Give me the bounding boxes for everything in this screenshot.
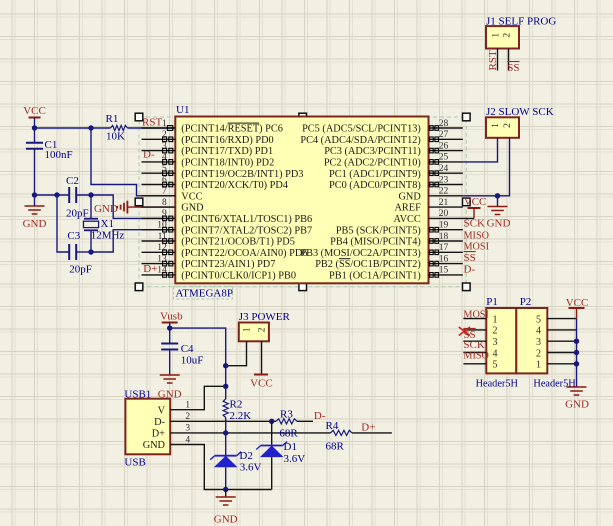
- svg-text:Header5H: Header5H: [476, 378, 519, 389]
- svg-text:22: 22: [439, 187, 449, 197]
- svg-text:1: 1: [491, 33, 501, 38]
- J3 pin 2 wire: [261, 341, 263, 374]
- svg-text:(PCINT20/XCK/T0) PD4: (PCINT20/XCK/T0) PD4: [181, 180, 288, 191]
- U1 pin 27 edge mark: [430, 137, 439, 142]
- U1 pin 17 edge mark: [430, 250, 439, 255]
- U1 pin 10 edge mark: [163, 227, 173, 232]
- U1 pin 5 wire: [142, 172, 176, 174]
- wire D+ junction to D2: [225, 433, 227, 456]
- svg-text:27: 27: [439, 130, 449, 140]
- svg-text:USB1: USB1: [124, 388, 151, 400]
- no-ERC marker at P1 pin 2: [459, 327, 470, 336]
- svg-text:RST: RST: [142, 117, 162, 129]
- U1 pin 21 wire: [429, 206, 463, 208]
- connector P1 body: [486, 308, 516, 373]
- U1 pin 26 edge mark: [430, 148, 439, 153]
- U1 pin 23 wire: [429, 184, 463, 186]
- svg-text:R3: R3: [280, 409, 293, 421]
- svg-text:8: 8: [162, 198, 167, 208]
- selection handle: [299, 283, 307, 291]
- svg-text:(PCINT19/OC2B/INT1) PD3: (PCINT19/OC2B/INT1) PD3: [181, 169, 303, 180]
- P2 pin 2 wire: [547, 352, 576, 354]
- svg-text:10uF: 10uF: [181, 355, 204, 367]
- svg-text:(PCINT14/RESET) PC6: (PCINT14/RESET) PC6: [181, 124, 283, 135]
- capacitor C3: [67, 230, 80, 260]
- svg-text:3: 3: [536, 337, 541, 348]
- svg-text:SCK: SCK: [464, 218, 485, 230]
- wire J2 pin 1 to U1 pin 25: [463, 138, 498, 162]
- wire D2 to GND rail: [225, 467, 227, 489]
- U1 pin 14 edge mark: [163, 273, 173, 278]
- node R2/D2/D+ junction: [223, 430, 228, 435]
- U1 pin 11 wire: [142, 240, 176, 242]
- U1 pin 7 wire: [142, 195, 176, 197]
- connector J3 POWER body: [239, 323, 269, 342]
- wire J2 pin 2 to GND rail: [463, 138, 510, 196]
- U1 pin 11 edge mark: [163, 239, 173, 244]
- svg-text:C4: C4: [181, 343, 194, 355]
- wire C3 to crystal bottom: [76, 251, 91, 253]
- node D-/D1 junction: [269, 419, 274, 424]
- svg-text:(PCINT18/INT0) PD2: (PCINT18/INT0) PD2: [181, 158, 274, 169]
- U1 pin 4 edge mark: [163, 160, 173, 165]
- svg-text:RST: RST: [487, 50, 499, 70]
- USB1 pin 1 wire to Vusb: [170, 386, 226, 409]
- connector USB1 body: [125, 399, 170, 455]
- svg-text:D-: D-: [464, 263, 476, 275]
- U1 pin 5 edge mark: [163, 171, 173, 176]
- P2 pin 1 wire: [547, 363, 576, 365]
- wire J3 pin 1 to Vusb rail: [226, 341, 247, 365]
- svg-text:GND: GND: [94, 203, 118, 215]
- connector J2 SLOW SCK body: [486, 117, 519, 138]
- node GND rail junction: [223, 487, 228, 492]
- node crystal top junction: [88, 192, 93, 197]
- svg-text:VCC: VCC: [181, 191, 202, 202]
- svg-text:C2: C2: [66, 175, 79, 187]
- svg-text:PC5 (ADC5/SCL/PCINT13): PC5 (ADC5/SCL/PCINT13): [302, 124, 421, 135]
- U1 pin 25 wire: [429, 161, 463, 163]
- svg-text:MOSI: MOSI: [463, 310, 489, 321]
- svg-text:1: 1: [243, 327, 253, 332]
- U1 pin 8 wire: [142, 206, 176, 208]
- svg-text:SS: SS: [464, 252, 476, 264]
- svg-text:R2: R2: [230, 399, 243, 411]
- svg-text:VCC: VCC: [23, 105, 46, 117]
- svg-text:D-: D-: [154, 417, 165, 428]
- U1 pin 28 wire: [429, 127, 463, 129]
- svg-text:GND: GND: [23, 218, 47, 230]
- svg-text:(PCINT6/XTAL1/TOSC1) PB6: (PCINT6/XTAL1/TOSC1) PB6: [181, 214, 312, 225]
- svg-text:24: 24: [439, 164, 449, 174]
- node VCC rail branch junction: [88, 125, 93, 130]
- svg-text:PC1 (ADC1/PCINT9): PC1 (ADC1/PCINT9): [329, 169, 421, 180]
- svg-text:21: 21: [439, 198, 449, 208]
- U1 pin 24 edge mark: [430, 171, 439, 176]
- svg-text:1: 1: [491, 123, 501, 128]
- P1 pin 4 wire: [463, 352, 486, 354]
- svg-text:MOSI: MOSI: [464, 242, 490, 253]
- svg-text:2: 2: [502, 33, 512, 38]
- svg-text:(PCINT16/RXD) PD0: (PCINT16/RXD) PD0: [181, 135, 273, 146]
- wire VCC stem down P2 to GND: [576, 319, 578, 387]
- wire R1 to U1 pin 1: [128, 127, 176, 129]
- power port VCC at P2: [566, 297, 589, 319]
- svg-text:26: 26: [439, 141, 449, 151]
- U1 pin 3 edge mark: [163, 148, 173, 153]
- U1 pin 2 wire: [142, 138, 176, 140]
- svg-text:2: 2: [258, 327, 268, 332]
- P1 pin 3 wire: [463, 340, 486, 342]
- svg-text:25: 25: [439, 153, 449, 163]
- svg-text:19: 19: [439, 221, 449, 231]
- svg-text:PB4 (MISO/PCINT4): PB4 (MISO/PCINT4): [330, 237, 421, 248]
- node crystal bottom junction: [88, 249, 93, 254]
- svg-text:2.2K: 2.2K: [230, 410, 252, 422]
- ground symbol GND (top left): [23, 195, 47, 230]
- svg-text:(PCINT23/AIN1) PD7: (PCINT23/AIN1) PD7: [181, 259, 275, 270]
- U1 pin 27 wire: [429, 138, 463, 140]
- svg-text:Vusb: Vusb: [160, 311, 183, 323]
- selection handle: [463, 113, 471, 121]
- ground symbol GND (J2): [487, 196, 511, 230]
- P1 pin 5 wire: [463, 363, 486, 365]
- svg-text:GND: GND: [565, 399, 589, 411]
- U1 pin 19 edge mark: [430, 227, 439, 232]
- svg-text:5: 5: [536, 314, 541, 325]
- U1 pin 18 edge mark: [430, 239, 439, 244]
- U1 pin 25 edge mark: [430, 160, 439, 165]
- U1 pin 28 edge mark: [430, 126, 439, 131]
- U1 pin 2 edge mark: [163, 137, 173, 142]
- U1 pin 10 wire: [142, 229, 176, 231]
- ground power port at U1 pin 8: [94, 201, 127, 215]
- svg-text:AREF: AREF: [394, 203, 421, 214]
- ic U1 ATMEGA8P body: [175, 117, 428, 284]
- svg-text:PC0 (ADC0/PCINT8): PC0 (ADC0/PCINT8): [329, 180, 421, 191]
- capacitor C4: [161, 343, 194, 375]
- wire GND branch down to C3: [57, 195, 69, 252]
- svg-text:7: 7: [162, 187, 167, 197]
- svg-text:J3 POWER: J3 POWER: [239, 311, 291, 323]
- svg-text:MISO: MISO: [464, 230, 489, 241]
- connector J1 SELF PROG body: [486, 26, 519, 48]
- svg-text:(PCINT0/CLK0/ICP1) PB0: (PCINT0/CLK0/ICP1) PB0: [181, 271, 296, 282]
- svg-text:ATMEGA8P: ATMEGA8P: [176, 288, 233, 300]
- U1 pin 15 edge mark: [430, 273, 439, 278]
- svg-text:VCC: VCC: [464, 196, 487, 208]
- wire Vusb rail right: [170, 328, 226, 399]
- resistor R3: [276, 409, 297, 424]
- svg-text:12MHz: 12MHz: [91, 230, 125, 242]
- wire GND port to U1 pin 8: [127, 206, 175, 208]
- U1 pin 19 wire: [429, 229, 463, 231]
- P1 pin 2 wire: [463, 329, 486, 331]
- U1 pin 13 wire: [142, 263, 176, 265]
- svg-text:(PCINT17/TXD) PD1: (PCINT17/TXD) PD1: [181, 146, 273, 157]
- svg-text:D1: D1: [284, 441, 297, 453]
- wire R2 bottom to D+ line: [225, 418, 227, 433]
- U1 pin 24 wire: [429, 172, 463, 174]
- svg-text:18: 18: [439, 232, 449, 242]
- selection handle: [463, 198, 471, 206]
- resistor R2: [223, 399, 242, 418]
- power port VCC at U1 pin 20: [464, 196, 487, 218]
- power port Vusb: [160, 311, 183, 323]
- svg-text:P2: P2: [520, 296, 532, 308]
- svg-text:GND: GND: [143, 440, 166, 451]
- svg-text:15: 15: [439, 266, 449, 276]
- svg-text:PB3 (MOSI/OC2A/PCINT3): PB3 (MOSI/OC2A/PCINT3): [300, 248, 420, 259]
- wire crystal bottom to XTAL2 elbow: [91, 230, 175, 252]
- node P2 pin 1 junction: [574, 361, 579, 366]
- U1 pin 18 wire: [429, 240, 463, 242]
- svg-text:AVCC: AVCC: [394, 214, 421, 225]
- svg-text:(PCINT7/XTAL2/TOSC2) PB7: (PCINT7/XTAL2/TOSC2) PB7: [181, 225, 312, 236]
- resistor R1: [106, 113, 128, 131]
- svg-text:4: 4: [536, 326, 541, 337]
- svg-text:68R: 68R: [279, 428, 298, 440]
- svg-text:20: 20: [439, 209, 449, 219]
- svg-text:5: 5: [493, 360, 498, 371]
- U1 pin 16 edge mark: [430, 261, 439, 266]
- U1 pin 14 wire: [142, 274, 176, 276]
- node P2 pin 2 junction: [574, 350, 579, 355]
- ground symbol GND (P2): [565, 387, 589, 411]
- svg-text:PB1 (OC1A/PCINT1): PB1 (OC1A/PCINT1): [329, 271, 421, 282]
- capacitor C1: [26, 128, 57, 195]
- USB1 pin 2 wire D- line: [170, 420, 276, 422]
- U1 pin 1 edge mark: [167, 126, 172, 131]
- svg-text:U1: U1: [176, 104, 189, 116]
- node Vusb/V junction: [223, 384, 228, 389]
- resistor R4: [326, 420, 353, 436]
- svg-text:2: 2: [536, 348, 541, 359]
- svg-text:D-: D-: [314, 410, 326, 422]
- wire Vusb stem: [169, 323, 171, 344]
- power port VCC (top left): [23, 105, 46, 118]
- U1 pin 22 wire: [429, 195, 463, 197]
- node VCC/C1 junction: [32, 125, 37, 130]
- svg-text:PB5 (SCK/PCINT5): PB5 (SCK/PCINT5): [336, 225, 421, 236]
- svg-text:R4: R4: [326, 420, 339, 432]
- crystal X1: [84, 195, 114, 252]
- svg-text:GND: GND: [181, 203, 204, 214]
- J1 pin 1 wire: [497, 49, 499, 71]
- svg-text:D+: D+: [152, 429, 165, 440]
- svg-text:PB2 (SS/OC1B/PCINT2): PB2 (SS/OC1B/PCINT2): [315, 259, 421, 270]
- wire VCC stem to rail: [34, 118, 36, 129]
- svg-text:SCK: SCK: [463, 339, 484, 351]
- node J3 pin1 junction: [223, 363, 228, 368]
- svg-text:28: 28: [439, 119, 449, 129]
- svg-text:17: 17: [439, 243, 449, 253]
- svg-text:20pF: 20pF: [66, 207, 89, 219]
- svg-text:68R: 68R: [326, 441, 345, 453]
- svg-text:3: 3: [493, 337, 498, 348]
- node Vusb junction: [167, 325, 172, 330]
- wire D1 to GND rail: [271, 457, 273, 489]
- svg-text:C3: C3: [67, 230, 80, 242]
- svg-text:1: 1: [536, 360, 541, 371]
- net label SS at J1 pin 2: [507, 62, 519, 75]
- U1 pin 17 wire: [429, 251, 463, 253]
- U1 pin 9 edge mark: [163, 216, 173, 221]
- node J2 GND junction: [495, 193, 500, 198]
- U1 pin 16 wire: [429, 263, 463, 265]
- svg-text:(PCINT22/OCOA/AIN0) PD6: (PCINT22/OCOA/AIN0) PD6: [181, 248, 307, 259]
- svg-text:SS: SS: [507, 62, 519, 74]
- svg-text:VCC: VCC: [250, 377, 273, 389]
- svg-text:PC2 (ADC2/PCINT10): PC2 (ADC2/PCINT10): [324, 158, 421, 169]
- P2 pin 5 wire: [547, 318, 576, 320]
- node GND rail junction at x57: [54, 192, 59, 197]
- svg-text:J1 SELF PROG: J1 SELF PROG: [486, 16, 556, 28]
- wire VCC rail to R1: [35, 127, 111, 129]
- USB1 pin 4 wire to GND rail: [170, 445, 272, 490]
- U1 pin 23 edge mark: [430, 182, 439, 187]
- U1 pin 26 wire: [429, 150, 463, 152]
- connector P2 body: [516, 308, 547, 373]
- svg-text:D2: D2: [239, 450, 252, 462]
- svg-text:P1: P1: [486, 296, 498, 308]
- svg-text:100nF: 100nF: [45, 149, 73, 161]
- svg-text:4: 4: [493, 348, 498, 359]
- svg-text:D+: D+: [361, 422, 375, 434]
- P1 pin 1 wire: [463, 318, 486, 320]
- U1 pin 3 wire: [142, 150, 176, 152]
- U1 pin 4 wire: [142, 161, 176, 163]
- svg-text:V: V: [158, 405, 166, 416]
- diode D1 zener: [256, 442, 287, 458]
- wire VCC branch down-right to U1 pin 7: [91, 128, 175, 196]
- svg-text:USB: USB: [124, 457, 145, 469]
- svg-text:1: 1: [493, 314, 498, 325]
- selection rectangle of U1: [139, 117, 466, 287]
- J1 pin 2 wire: [508, 49, 510, 71]
- capacitor C2: [66, 175, 79, 203]
- svg-text:23: 23: [439, 175, 449, 185]
- svg-text:GND: GND: [398, 191, 421, 202]
- diode D2 zener: [210, 452, 241, 468]
- svg-text:J2 SLOW SCK: J2 SLOW SCK: [486, 106, 554, 118]
- svg-text:PC3 (ADC3/PCINT11): PC3 (ADC3/PCINT11): [324, 146, 421, 157]
- svg-text:16: 16: [439, 254, 449, 264]
- P2 pin 3 wire: [547, 340, 576, 342]
- U1 pin 1 wire: [142, 127, 176, 129]
- selection handle: [135, 283, 143, 291]
- U1 pin 12 wire: [142, 251, 176, 253]
- wire GND rail to C2: [35, 194, 70, 196]
- U1 pin 6 wire: [142, 184, 176, 186]
- U1 pin 20 wire: [429, 217, 475, 219]
- U1 pin 13 edge mark: [163, 261, 173, 266]
- U1 pin 15 wire: [429, 274, 463, 276]
- U1 pin 9 wire: [142, 217, 176, 219]
- U1 pin 6 edge mark: [163, 182, 173, 187]
- power port VCC at J3 pin 2: [250, 375, 273, 390]
- svg-text:20pF: 20pF: [69, 264, 92, 276]
- svg-text:3.6V: 3.6V: [240, 462, 262, 474]
- node P2 pin 3 junction: [574, 339, 579, 344]
- svg-text:1: 1: [162, 119, 167, 129]
- svg-text:GND: GND: [214, 514, 238, 526]
- svg-text:2: 2: [503, 123, 513, 128]
- svg-text:2: 2: [493, 326, 498, 337]
- value label ATMEGA8P: [174, 286, 233, 299]
- ground symbol GND (C4): [158, 375, 182, 400]
- ground symbol GND (USB): [214, 490, 238, 526]
- svg-text:GND: GND: [487, 218, 511, 230]
- selection handle: [299, 113, 307, 121]
- selection handle: [135, 113, 143, 121]
- svg-text:X1: X1: [101, 218, 114, 230]
- U1 pin 12 edge mark: [163, 250, 173, 255]
- node C1/GND junction: [32, 192, 37, 197]
- svg-text:R1: R1: [106, 113, 119, 125]
- USB1 pin 3 wire D+ line: [170, 432, 330, 434]
- selection handle: [463, 283, 471, 291]
- svg-text:D+: D+: [143, 263, 157, 275]
- wire R3 to D- label: [297, 420, 313, 422]
- svg-text:10K: 10K: [106, 131, 125, 143]
- svg-text:3.6V: 3.6V: [284, 453, 306, 465]
- wire D- junction to D1: [271, 421, 273, 445]
- wire C2 to XTAL1 elbow: [76, 195, 175, 218]
- selection handle: [135, 198, 143, 206]
- svg-text:(PCINT21/OCOB/T1) PD5: (PCINT21/OCOB/T1) PD5: [181, 237, 295, 248]
- svg-text:MISO: MISO: [463, 350, 488, 361]
- svg-text:PC4 (ADC4/SDA/PCINT12): PC4 (ADC4/SDA/PCINT12): [300, 135, 420, 146]
- P2 pin 4 wire: [547, 329, 576, 331]
- wire R4 to D+ label: [352, 432, 392, 434]
